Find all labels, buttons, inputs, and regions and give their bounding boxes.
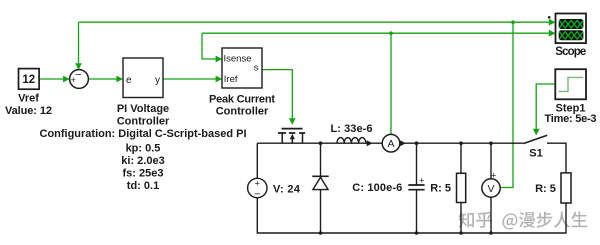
svg-text:Controller: Controller — [117, 115, 170, 127]
svg-text:L: 33e-6: L: 33e-6 — [331, 123, 373, 135]
svg-text:Time: 5e-3: Time: 5e-3 — [545, 113, 597, 125]
svg-text:PI Voltage: PI Voltage — [117, 103, 169, 115]
svg-text:Peak Current: Peak Current — [209, 93, 275, 105]
svg-text:+: + — [255, 179, 260, 189]
svg-text:Iref: Iref — [224, 74, 238, 85]
svg-text:ki: 2.0e3: ki: 2.0e3 — [121, 155, 164, 167]
svg-text:−: − — [75, 69, 81, 81]
svg-text:A: A — [387, 138, 394, 150]
svg-text:S1: S1 — [529, 148, 542, 160]
svg-text:+: + — [491, 171, 496, 181]
svg-text:R: 5: R: 5 — [535, 183, 556, 195]
svg-text:V: 24: V: 24 — [273, 183, 301, 195]
svg-text:kp: 0.5: kp: 0.5 — [126, 143, 161, 155]
svg-text:Value: 12: Value: 12 — [5, 105, 52, 117]
svg-text:V: V — [487, 183, 494, 195]
svg-text:Isense: Isense — [224, 54, 252, 65]
svg-text:Configuration: Digital C-Scrip: Configuration: Digital C-Script-based PI — [40, 128, 247, 140]
svg-text:td: 0.1: td: 0.1 — [127, 180, 159, 192]
svg-text:s: s — [254, 62, 259, 73]
svg-text:e: e — [126, 75, 132, 86]
svg-text:C: 100e-6: C: 100e-6 — [352, 182, 402, 194]
svg-text:Controller: Controller — [216, 106, 269, 118]
svg-text:fs: 25e3: fs: 25e3 — [123, 168, 164, 180]
svg-text:−: − — [254, 188, 260, 200]
svg-text:y: y — [155, 75, 160, 86]
svg-text:Vref: Vref — [18, 93, 39, 105]
svg-text:12: 12 — [22, 74, 35, 86]
svg-text:+: + — [419, 176, 424, 186]
svg-text:Scope: Scope — [555, 46, 586, 58]
svg-text:R: 5: R: 5 — [430, 183, 451, 195]
